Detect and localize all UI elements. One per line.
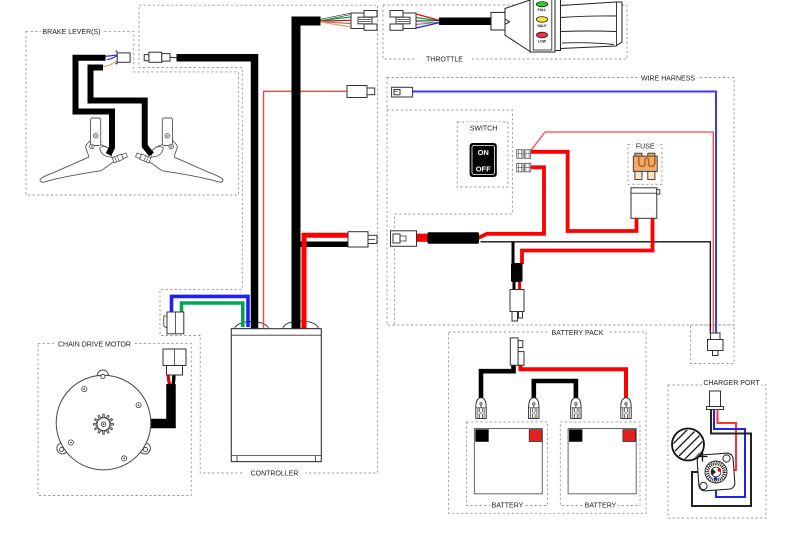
svg-text:BRAKE LEVER(S): BRAKE LEVER(S) (43, 29, 101, 36)
svg-text:WIRE HARNESS: WIRE HARNESS (641, 75, 695, 82)
svg-text:BATTERY: BATTERY (585, 502, 617, 509)
svg-text:CHARGER PORT: CHARGER PORT (703, 380, 760, 387)
svg-text:FUSE: FUSE (636, 144, 655, 151)
svg-text:FULL: FULL (538, 8, 547, 12)
svg-text:THROTTLE: THROTTLE (426, 56, 463, 63)
svg-text:CONTROLLER: CONTROLLER (251, 471, 299, 478)
svg-text:OFF: OFF (476, 165, 491, 174)
svg-text:BATTERY PACK: BATTERY PACK (552, 330, 604, 337)
svg-text:CHAIN DRIVE MOTOR: CHAIN DRIVE MOTOR (58, 341, 131, 348)
svg-text:ON: ON (478, 148, 489, 157)
svg-text:BATTERY: BATTERY (492, 502, 524, 509)
svg-text:HALF: HALF (537, 24, 546, 28)
svg-text:SWITCH: SWITCH (470, 125, 498, 132)
svg-text:LOW: LOW (538, 39, 547, 43)
